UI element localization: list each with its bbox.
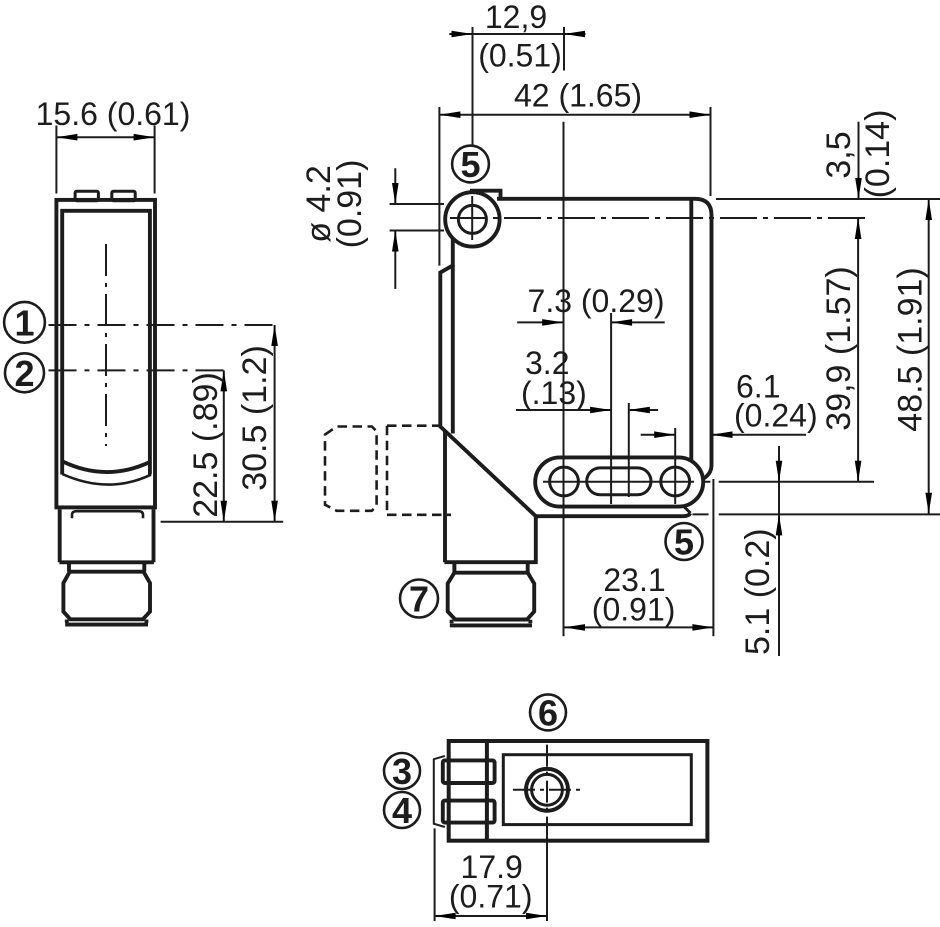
svg-text:6: 6 — [538, 692, 558, 733]
svg-text:12,9: 12,9 — [485, 0, 547, 35]
svg-text:4: 4 — [392, 790, 412, 831]
svg-text:39,9 (1.57): 39,9 (1.57) — [820, 266, 858, 430]
svg-text:7.3 (0.29): 7.3 (0.29) — [528, 283, 665, 319]
svg-text:(0.91): (0.91) — [592, 592, 676, 628]
svg-text:30.5 (1.2): 30.5 (1.2) — [236, 345, 274, 491]
svg-text:(.13): (.13) — [521, 375, 587, 411]
svg-text:(0.51): (0.51) — [478, 38, 562, 74]
svg-text:(0.24): (0.24) — [734, 398, 818, 434]
svg-text:7: 7 — [409, 579, 429, 620]
svg-text:(0.71): (0.71) — [449, 879, 533, 915]
svg-text:22.5 (.89): 22.5 (.89) — [187, 372, 225, 518]
svg-text:(0.14): (0.14) — [859, 110, 897, 199]
svg-text:5: 5 — [460, 144, 480, 185]
svg-text:1: 1 — [14, 302, 34, 343]
svg-text:3,5: 3,5 — [820, 131, 858, 178]
svg-text:5.1 (0.2): 5.1 (0.2) — [739, 528, 777, 655]
svg-text:(0.91): (0.91) — [331, 160, 369, 249]
svg-text:2: 2 — [14, 353, 34, 394]
svg-text:15.6 (0.61): 15.6 (0.61) — [36, 96, 191, 132]
svg-text:5: 5 — [674, 522, 694, 563]
svg-text:42 (1.65): 42 (1.65) — [514, 78, 642, 114]
svg-text:48.5 (1.91): 48.5 (1.91) — [892, 267, 930, 431]
svg-text:3: 3 — [392, 751, 412, 792]
